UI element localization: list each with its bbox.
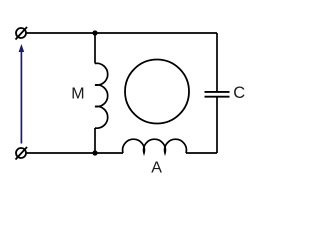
wire top rail: [26, 32, 217, 34]
motor circle: [125, 60, 189, 124]
capacitor C plates: [205, 92, 230, 97]
arrow (supply voltage): [19, 44, 25, 144]
terminal top-left: [16, 27, 28, 40]
inductor A: [123, 139, 187, 153]
inductor M: [95, 63, 108, 128]
wire bottom rail right: [186, 152, 217, 154]
svg-text:C: C: [233, 84, 245, 102]
wire bottom rail left: [26, 152, 123, 154]
wire right branch upper: [216, 33, 218, 91]
svg-text:A: A: [151, 160, 162, 177]
wire M branch lower: [94, 128, 96, 153]
svg-text:M: M: [71, 85, 84, 102]
wire right branch lower: [216, 98, 218, 154]
terminal bottom-left: [16, 147, 28, 160]
node junction bottom: [92, 150, 97, 155]
wire M branch upper: [94, 33, 96, 64]
node junction top: [92, 30, 97, 35]
